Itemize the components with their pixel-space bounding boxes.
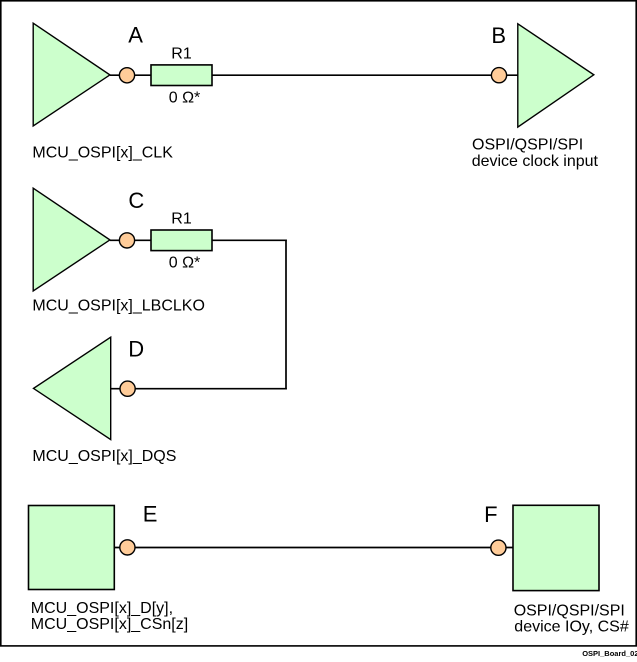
- svg-text:R1: R1: [171, 211, 192, 228]
- svg-text:B: B: [491, 23, 506, 48]
- buffer OSPI/QSPI/SPI device clock input: [518, 24, 594, 127]
- svg-text:OSPI/QSPI/SPI: OSPI/QSPI/SPI: [472, 136, 583, 153]
- svg-text:R1: R1: [171, 46, 192, 63]
- resistor R1: [151, 65, 212, 86]
- node B: [491, 68, 506, 83]
- svg-text:C: C: [128, 188, 144, 213]
- wire: pad E to pad F: [114, 547, 513, 549]
- svg-text:OSPI/QSPI/SPI: OSPI/QSPI/SPI: [514, 603, 625, 620]
- svg-text:0 Ω*: 0 Ω*: [169, 255, 201, 272]
- pad MCU_OSPI[x]_D[y]/CSn[z]: [29, 506, 115, 590]
- wire: vertical segment: [285, 240, 287, 390]
- node D: [120, 381, 135, 396]
- node C: [119, 233, 134, 248]
- svg-text:MCU_OSPI[x]_D[y],: MCU_OSPI[x]_D[y],: [31, 600, 173, 617]
- wire: corner to node D: [111, 388, 287, 390]
- svg-text:MCU_OSPI[x]_DQS: MCU_OSPI[x]_DQS: [32, 448, 176, 465]
- buffer MCU_OSPI[x]_CLK output driver: [33, 23, 110, 126]
- node A: [119, 68, 134, 83]
- resistor R1 (loopback): [151, 230, 212, 251]
- wire: resistor R1 to corner: [212, 239, 287, 241]
- svg-text:D: D: [128, 336, 144, 361]
- wire: buffer C output to resistor R1: [110, 239, 151, 241]
- buffer MCU_OSPI[x]_LBCLKO output driver: [33, 188, 110, 291]
- svg-text:device clock input: device clock input: [472, 153, 599, 170]
- svg-text:E: E: [143, 502, 158, 527]
- svg-text:OSPI_Board_02: OSPI_Board_02: [582, 649, 637, 657]
- node E: [120, 540, 135, 555]
- svg-text:device IOy, CS#: device IOy, CS#: [514, 619, 629, 636]
- svg-text:MCU_OSPI[x]_CSn[z]: MCU_OSPI[x]_CSn[z]: [31, 616, 188, 633]
- wire: buffer A output to resistor R1: [110, 74, 151, 76]
- pad OSPI/QSPI/SPI device IOy,CS#: [513, 505, 599, 590]
- svg-text:MCU_OSPI[x]_LBCLKO: MCU_OSPI[x]_LBCLKO: [32, 297, 205, 314]
- svg-text:F: F: [484, 502, 497, 527]
- node F: [491, 540, 506, 555]
- svg-text:A: A: [128, 23, 143, 48]
- svg-text:MCU_OSPI[x]_CLK: MCU_OSPI[x]_CLK: [32, 144, 173, 161]
- svg-text:0 Ω*: 0 Ω*: [169, 90, 201, 107]
- buffer MCU_OSPI[x]_DQS input receiver: [34, 337, 111, 439]
- wire: resistor R1 to buffer B input (node B): [212, 74, 518, 76]
